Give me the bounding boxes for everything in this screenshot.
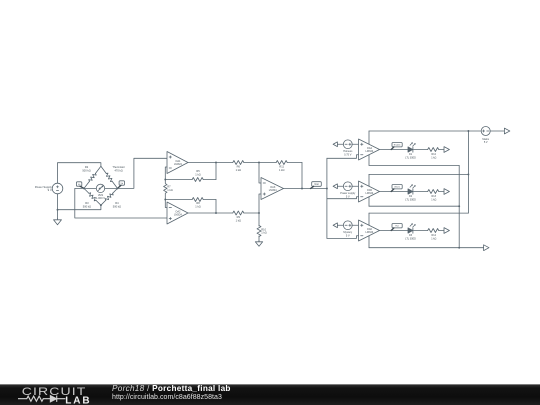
node — [57, 209, 59, 211]
node — [458, 205, 460, 207]
port flag input — [333, 142, 343, 147]
flag Vb — [117, 181, 125, 190]
wire — [259, 163, 261, 184]
svg-text:1 kΩ: 1 kΩ — [167, 188, 172, 192]
footer title — [112, 384, 231, 393]
wire — [369, 212, 468, 214]
svg-text:1 kΩ: 1 kΩ — [261, 231, 266, 235]
thermistor RT1 — [101, 165, 125, 188]
wire V+ pin — [368, 174, 370, 186]
svg-text:5 V: 5 V — [346, 235, 350, 238]
resistor R2 — [82, 165, 101, 188]
wire — [413, 230, 427, 232]
port flag — [504, 128, 509, 134]
svg-text:1 kΩ: 1 kΩ — [236, 218, 241, 222]
node — [215, 162, 217, 164]
svg-text:Power Supply: Power Supply — [35, 185, 53, 189]
svg-text:LAB: LAB — [65, 395, 91, 405]
wire — [327, 155, 359, 159]
svg-text:R3: R3 — [85, 201, 89, 205]
svg-text:R11: R11 — [279, 164, 284, 168]
wire — [188, 212, 216, 214]
svg-text:Thermistor: Thermistor — [112, 165, 125, 169]
node — [458, 247, 460, 249]
wire — [380, 191, 409, 193]
wire — [369, 205, 459, 207]
svg-text:5 V: 5 V — [346, 196, 350, 199]
wire — [75, 188, 167, 218]
port flag output — [444, 228, 449, 234]
node — [326, 188, 328, 190]
wire — [259, 194, 261, 213]
svg-text:Hot: Hot — [395, 225, 399, 228]
svg-text:1 kΩ: 1 kΩ — [431, 199, 436, 202]
wire — [165, 167, 167, 180]
resistor R9 — [216, 211, 259, 222]
node — [467, 173, 469, 175]
wire — [58, 163, 101, 184]
flag Enable — [391, 143, 402, 150]
port flag input — [333, 223, 343, 228]
wire — [467, 131, 469, 213]
node — [164, 199, 166, 201]
resistor R6 — [216, 161, 259, 172]
svg-text:500 kΩ: 500 kΩ — [82, 169, 90, 173]
svg-text:Warm: Warm — [394, 186, 400, 189]
svg-text:1.000 V: 1.000 V — [96, 196, 105, 200]
op-amp OA2 — [167, 202, 188, 224]
wire — [380, 230, 409, 232]
wire V+ pin — [368, 131, 370, 144]
node — [258, 212, 260, 214]
footer bar — [0, 384, 540, 405]
flag Warm — [391, 185, 402, 192]
svg-text:R9: R9 — [237, 215, 241, 219]
svg-text:R2: R2 — [85, 165, 89, 169]
svg-text:R6: R6 — [237, 164, 241, 168]
svg-text:Vout: Vout — [314, 183, 319, 186]
wire — [458, 165, 460, 247]
svg-text:LM324: LM324 — [174, 162, 182, 166]
voltage source (Hotness 0.75 V) — [343, 140, 358, 157]
wire — [369, 173, 468, 175]
svg-text:LM324: LM324 — [366, 230, 374, 234]
wire — [369, 164, 459, 166]
wire V- pin — [368, 236, 370, 248]
svg-text:500 kΩ: 500 kΩ — [83, 205, 91, 209]
voltage source (Mystery 5 V) — [343, 221, 358, 238]
op-amp OA4 — [359, 139, 380, 160]
svg-text:VM1: VM1 — [98, 193, 104, 197]
voltage source (Mains 5V) — [481, 127, 490, 145]
flag Hot — [391, 224, 402, 231]
svg-text:R8: R8 — [196, 201, 200, 205]
svg-text:1 kΩ: 1 kΩ — [195, 172, 200, 176]
wire — [326, 158, 328, 238]
svg-text:1 kΩ: 1 kΩ — [431, 157, 436, 160]
wire — [58, 205, 101, 210]
wire — [327, 236, 359, 239]
port flag output — [444, 147, 449, 153]
op-amp OA3 — [261, 178, 284, 200]
footer url — [112, 394, 222, 401]
svg-text:470 kΩ: 470 kΩ — [114, 169, 122, 173]
wire — [284, 188, 327, 190]
svg-text:1 kΩ: 1 kΩ — [431, 238, 436, 241]
wire — [490, 130, 504, 132]
wire — [188, 162, 216, 164]
resistor R11 — [259, 161, 302, 189]
svg-text:R5: R5 — [196, 169, 200, 173]
svg-text:LTL 30ED: LTL 30ED — [405, 199, 416, 202]
resistor R10 — [257, 213, 267, 241]
svg-text:5 V: 5 V — [484, 141, 488, 144]
svg-text:LM324: LM324 — [366, 191, 374, 195]
wire V+ pin — [368, 213, 370, 225]
voltage source V1 (Power Supply 9V) — [35, 183, 63, 194]
wire V- pin — [368, 197, 370, 206]
resistor R3 — [83, 188, 101, 208]
svg-text:1 kΩ: 1 kΩ — [195, 204, 200, 208]
op-amp OA6 — [359, 220, 380, 241]
svg-text:LTL 30ED: LTL 30ED — [405, 238, 416, 241]
wire — [380, 149, 409, 151]
node — [301, 188, 303, 190]
wire — [327, 197, 359, 199]
LED D2 — [405, 184, 416, 201]
resistor R4 — [101, 188, 121, 208]
op-amp OA1 — [167, 152, 188, 174]
svg-text:R4: R4 — [115, 201, 119, 205]
wire — [413, 149, 427, 151]
port flag output — [444, 189, 449, 195]
svg-text:0.75 V: 0.75 V — [344, 154, 352, 157]
ground — [54, 210, 62, 225]
wire — [165, 200, 167, 208]
node — [100, 204, 102, 206]
ground — [255, 241, 262, 247]
svg-text:LM324: LM324 — [269, 188, 277, 192]
node — [164, 179, 166, 181]
node — [258, 162, 260, 164]
resistor R13 — [428, 190, 444, 202]
node — [467, 130, 469, 132]
svg-text:Enable: Enable — [394, 145, 402, 147]
wire — [57, 194, 59, 210]
svg-text:LM324: LM324 — [366, 149, 374, 153]
resistor R14 — [428, 229, 444, 241]
voltage source (Power supply 5 V) — [340, 182, 358, 199]
wire V+ rail — [369, 130, 481, 132]
wire V- pin — [368, 155, 370, 166]
LED D3 — [405, 223, 416, 240]
resistor R12 — [428, 148, 444, 160]
svg-text:500 kΩ: 500 kΩ — [113, 205, 121, 209]
svg-text:9 V: 9 V — [48, 188, 52, 192]
svg-text:R7: R7 — [167, 185, 171, 189]
svg-text:LTL 30ED: LTL 30ED — [405, 157, 416, 160]
port flag — [484, 245, 489, 251]
wire — [369, 247, 484, 249]
svg-text:1 kΩ: 1 kΩ — [236, 168, 241, 172]
wire — [118, 158, 168, 188]
LED D1 — [405, 142, 416, 159]
svg-text:1 kΩ: 1 kΩ — [279, 168, 284, 172]
voltmeter VM1 — [84, 184, 118, 200]
resistor R7 — [164, 180, 173, 200]
port flag input — [333, 184, 343, 189]
circuitlab logo — [17, 384, 97, 405]
resistor R8 — [165, 198, 216, 214]
svg-text:LM324: LM324 — [174, 212, 182, 216]
wire — [413, 191, 427, 193]
flag Vout — [311, 182, 322, 189]
resistor R5 — [165, 163, 216, 182]
svg-text:R10: R10 — [261, 227, 266, 231]
node — [215, 212, 217, 214]
op-amp OA5 — [359, 181, 380, 202]
flag Va — [76, 182, 85, 190]
